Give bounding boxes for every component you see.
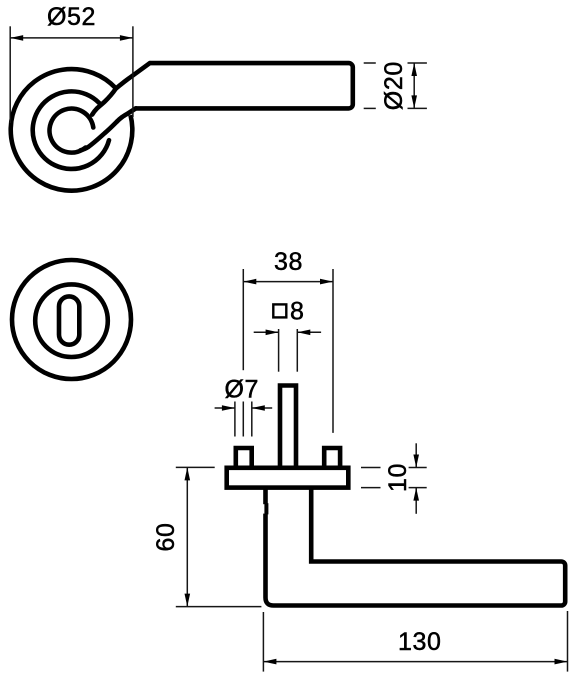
neck upper edge (silhouette) xyxy=(116,63,150,89)
neck base inner circle xyxy=(50,109,94,153)
dimension Ø52 xyxy=(10,3,133,123)
dimension Ø7 xyxy=(215,376,273,437)
dimension 130 xyxy=(263,611,567,672)
neck lower edge (silhouette) xyxy=(117,108,136,121)
left screw post xyxy=(236,448,252,468)
lever bar front view xyxy=(136,63,353,108)
parting notch on neck left edge xyxy=(262,504,265,513)
right screw post xyxy=(324,448,340,468)
svg-text:38: 38 xyxy=(274,248,303,276)
svg-text:Ø20: Ø20 xyxy=(380,61,408,110)
keyhole slot xyxy=(59,296,79,344)
svg-text:130: 130 xyxy=(398,628,442,656)
escutcheon inner circle xyxy=(35,284,108,357)
dimension 60 xyxy=(152,467,261,606)
svg-text:60: 60 xyxy=(152,522,180,551)
svg-text:8: 8 xyxy=(290,298,305,326)
dimension 38 xyxy=(243,248,333,433)
svg-text:Ø52: Ø52 xyxy=(47,3,96,31)
svg-text:10: 10 xyxy=(384,463,412,492)
dimension 10 xyxy=(361,443,427,514)
handle side view L-shape xyxy=(266,488,566,606)
neck lower intersection curve into base xyxy=(81,122,118,151)
neck upper intersection curve into base xyxy=(92,89,116,115)
escutcheon outer circle xyxy=(12,260,131,379)
rose middle circle xyxy=(33,91,109,169)
rose outer circle (Ø52) xyxy=(11,69,133,191)
dimension Ø20 xyxy=(364,61,427,110)
rose plate side view xyxy=(227,468,349,488)
dimension square-8 xyxy=(254,298,321,372)
spindle (square 8) xyxy=(280,386,296,468)
svg-text:Ø7: Ø7 xyxy=(225,376,260,404)
